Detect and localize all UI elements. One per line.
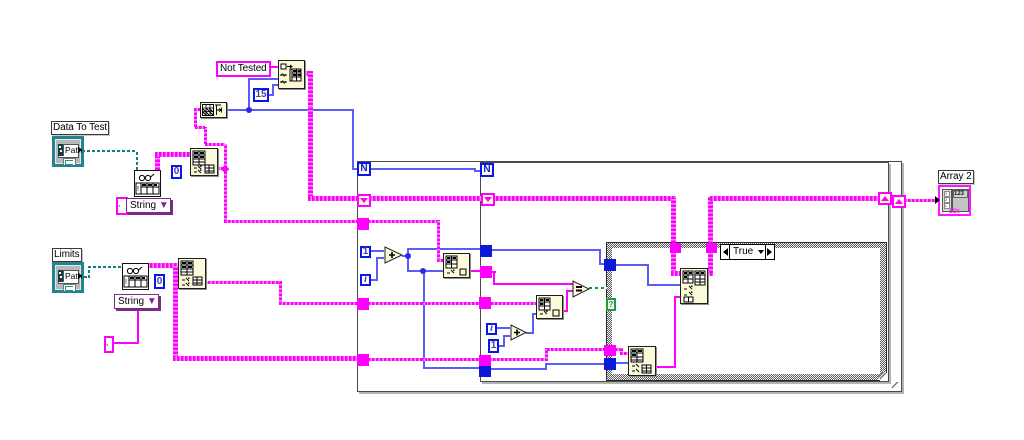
string constant delimiter limits: [104, 336, 114, 353]
junction: blue increment out: [405, 253, 411, 259]
wire: case blue tunnel to replace node: [615, 264, 648, 266]
wire: teal path DT: [82, 150, 138, 152]
wire: outer index array out to inner pink tunnel: [468, 270, 481, 272]
case structure True: [606, 242, 887, 381]
wire: outer i to increment: [371, 279, 378, 281]
tunnel inner loop out auto-index: [878, 192, 892, 205]
junction: blue at array size out: [246, 107, 252, 113]
case selector terminal ?: [606, 298, 616, 311]
wire: DT index-array out to diamond and branches: [217, 167, 226, 170]
inner increment node: [510, 324, 528, 341]
wire: T2 inside to outer index array: [368, 220, 439, 223]
svg-text:!: !: [125, 279, 127, 286]
tunnel inner blue top: [480, 245, 492, 257]
wire: array size output blue to N terminals: [226, 109, 354, 111]
wire: T3 inside to inner tunnel P3: [368, 302, 480, 305]
wire crossing patch: pink over blue at x424/y302: [421, 302, 427, 305]
for-loop inner: [480, 162, 889, 382]
string constant Not Tested: [216, 61, 271, 77]
wire: P3 inside to inner index array: [491, 302, 537, 305]
numeric constant 0 Limits: [154, 274, 165, 289]
wire: inner index array out to equals: [561, 310, 568, 312]
wire: limits index-array out to T3: [204, 281, 282, 284]
N terminal inner: [480, 163, 494, 177]
wire: out tunnel to Array 2: [904, 199, 938, 202]
tunnel case blue left: [604, 259, 616, 271]
wire: P4 inside up to case pink tunnel: [489, 358, 547, 361]
index array node DT: [190, 148, 218, 176]
tunnel case pink B top: [706, 243, 717, 253]
wire: replace node output up to tunnel B: [706, 271, 713, 276]
tunnel outer loop out auto-index: [892, 195, 906, 208]
outer index array node: [443, 253, 470, 278]
wire: branch down to case tunnel A: [671, 198, 676, 243]
wire: outer 1 to increment: [371, 250, 384, 252]
wire: inner pink tunnel to equals: [491, 271, 496, 273]
indicator input arrow: [935, 196, 940, 204]
tunnel T3 solid: [357, 298, 369, 310]
svg-text:!: !: [137, 186, 139, 193]
numeric constant 0 DT: [171, 165, 182, 179]
VI read spreadsheet Limits: [122, 263, 149, 290]
wire: case inside pink to bottom node: [615, 348, 622, 351]
tunnel T4 solid: [357, 354, 369, 366]
ring selector String Limits: [114, 294, 159, 309]
array size node: [200, 102, 227, 118]
wire: top band T1p to case branch: [492, 196, 676, 201]
wire: case tunnel B up: [708, 197, 713, 244]
tunnel inner pink P2: [480, 266, 492, 278]
label Array 2: [938, 170, 974, 184]
wire: Not Tested to init array: [270, 66, 278, 68]
outer 1 constant: [360, 246, 371, 258]
case selector label: [720, 244, 775, 260]
numeric constant 15: [253, 88, 269, 102]
wire: inner increment out to index array: [526, 332, 534, 334]
wire: diamond down to T2: [224, 171, 227, 222]
wire: init-array output down to T1: [303, 71, 313, 76]
equals node: [572, 280, 590, 298]
VI read spreadsheet DT: [134, 170, 161, 197]
case bottom search node: [628, 346, 656, 376]
label Data To Test: [51, 121, 109, 135]
label Limits: [52, 248, 82, 262]
tunnel T1 auto-index outer left: [357, 194, 371, 207]
wire: top band T1 to T1p: [369, 196, 483, 201]
wire: T4 inside to inner tunnel P4: [368, 358, 480, 361]
wire crossing patch: pink over blue at x309/y110: [308, 107, 313, 114]
indicator Array 2: [938, 185, 971, 216]
tunnel case blue left low: [604, 358, 616, 370]
fold corner inner loop: [880, 373, 888, 381]
tunnel inner pink P3: [479, 297, 491, 309]
wire: top band tunnel B to out tunnel: [710, 196, 880, 201]
wire: inner 1 to increment: [498, 345, 505, 347]
junction: blue at x424: [420, 268, 426, 274]
init array node: [278, 60, 305, 89]
tunnel case pink left low: [604, 345, 616, 356]
wire: limits VI out: [146, 263, 179, 268]
tunnel case pink A top: [670, 243, 681, 253]
wire crossing patch: pink over blue at x437/y249: [437, 246, 440, 253]
wire: inner blue tunnel to case: [491, 249, 601, 251]
wire: inner i to increment: [497, 327, 510, 329]
outer increment node: [384, 246, 404, 264]
wire: limits branch down to T4: [173, 266, 178, 358]
for-loop outer: [357, 161, 902, 392]
N terminal outer: [357, 162, 371, 176]
wire: outer increment out: [402, 255, 409, 257]
wire: DT VI output: [155, 154, 160, 170]
tunnel T1p auto-index inner left: [481, 193, 495, 206]
wire: count wire down to outer N: [352, 109, 354, 170]
junction: pink diamond DT index out: [221, 165, 229, 173]
tunnel T2 solid: [357, 218, 369, 230]
inner 1 constant: [488, 339, 499, 353]
inner index array node: [536, 295, 563, 319]
wire: case inside tunnel A down to replace node: [671, 253, 676, 273]
index array node Limits: [178, 258, 206, 289]
wire: bottom blue into case: [489, 368, 546, 370]
path control Limits: [52, 262, 84, 293]
wire: case bottom node output up to replace node: [654, 366, 675, 368]
replace array subset node: [680, 268, 708, 304]
tunnel inner blue bottom: [479, 366, 491, 377]
tunnel inner pink P4: [479, 355, 491, 366]
path control Data To Test: [52, 136, 84, 167]
fold corner case: [878, 372, 886, 380]
wire crossing patch: pink over blue at x424/y358: [421, 358, 427, 361]
wire: outer N to inner N: [371, 168, 476, 170]
wire: green boolean to case selector: [589, 287, 607, 289]
wire: teal path Limits: [84, 276, 90, 278]
outer i terminal: [360, 274, 371, 286]
wire: 15 to init array: [268, 94, 274, 96]
fold corner outer loop: [892, 382, 900, 390]
wire: limits delimiter constant: [112, 342, 139, 344]
inner N wiring done; inner i terminal: [486, 323, 497, 335]
ring selector String DT: [116, 197, 128, 215]
